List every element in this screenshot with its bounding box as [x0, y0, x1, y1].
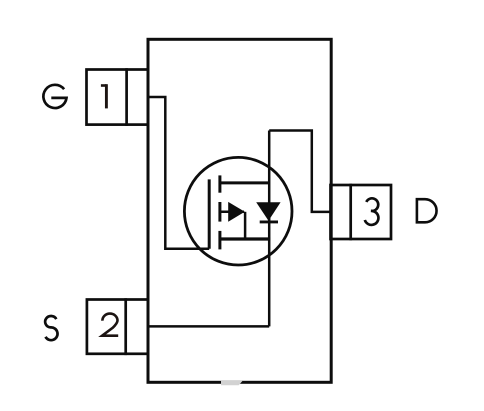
drain bar: [220, 181, 269, 184]
pin 1 pad box: [87, 70, 149, 125]
gate bar: [208, 179, 211, 248]
pin number 3: [365, 198, 379, 225]
source wire from pin 2: [148, 325, 269, 328]
label S: [45, 316, 57, 340]
gate wire from pin 1: [148, 97, 209, 249]
package outline (SOT-23 body): [148, 39, 331, 382]
label G: [43, 85, 66, 108]
channel dash (body contact): [218, 202, 221, 222]
source bar: [220, 237, 270, 240]
pin 3 pad divider: [349, 184, 352, 241]
body diode triangle (anode): [256, 202, 280, 221]
label D: [417, 199, 437, 222]
watermark gap on bottom edge: [221, 380, 243, 385]
pin number 1: [101, 84, 107, 108]
pin 2 pad divider: [124, 298, 127, 355]
channel dash (drain contact): [218, 175, 221, 192]
body diode cathode bar: [260, 220, 278, 223]
body-to-source vertical: [244, 212, 247, 239]
transistor circle: [184, 157, 292, 265]
body arrow head: [228, 202, 245, 222]
drain wire hook from pin 3: [269, 131, 330, 212]
body arrow stem: [220, 211, 244, 214]
pin 1 pad divider: [125, 68, 128, 126]
pin 3 pad box: [331, 185, 392, 239]
pin 2 pad box: [87, 300, 148, 354]
drain-source vertical wire through body diode: [268, 131, 271, 327]
channel dash (source contact): [218, 231, 221, 250]
pin number 2: [102, 314, 118, 336]
